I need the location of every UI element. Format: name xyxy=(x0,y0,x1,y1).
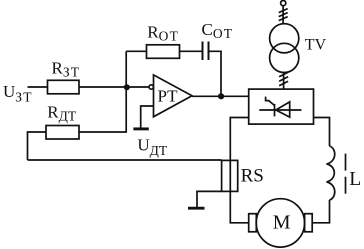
wire node A to op-amp inverting input xyxy=(126,86,149,88)
resistor Rдт xyxy=(46,126,79,140)
wire block right output down to smoothing reactor L xyxy=(314,118,330,147)
resistor Rзт xyxy=(48,80,80,94)
inductor L (coil) xyxy=(327,146,335,200)
wire block lower-left output down to RS xyxy=(230,118,248,161)
wire op-amp output to thyristor block through node B xyxy=(192,95,249,97)
wire RS ground tap xyxy=(197,191,222,207)
wire Rот to Cот xyxy=(180,50,203,52)
svg-text:UДТ: UДТ xyxy=(137,135,167,158)
svg-text:CОТ: CОТ xyxy=(202,20,234,41)
wire node A up to feedback branch xyxy=(125,51,127,87)
svg-text:РТ: РТ xyxy=(158,86,179,105)
wire Rдт left down to bottom feedback rail xyxy=(28,132,47,160)
thyristor converter block xyxy=(249,89,314,124)
thyristor symbol anode-cathode line xyxy=(259,109,301,111)
resistor Rот xyxy=(147,45,180,59)
wire node A down to Rдт xyxy=(79,87,126,132)
three-phase hatch marks (top) xyxy=(279,9,288,13)
wire op-amp noninverting input to common xyxy=(141,106,154,128)
wire RS to motor left brush xyxy=(230,191,248,222)
three-phase hatch marks (bottom) xyxy=(279,72,288,77)
wire feedback left segment xyxy=(126,50,146,52)
wire transformer to thyristor block (three-phase line) xyxy=(283,72,285,89)
op-amp РТ (current regulator) xyxy=(154,75,193,117)
svg-text:TV: TV xyxy=(305,37,327,54)
capacitor Cот xyxy=(202,42,204,61)
svg-text:RОТ: RОТ xyxy=(147,23,179,44)
wire Cот to node B (feedback right corner) xyxy=(209,51,222,96)
thyristor symbol gate xyxy=(266,97,275,106)
svg-text:UЗТ: UЗТ xyxy=(3,82,33,105)
transformer TV xyxy=(270,24,299,53)
ground (bar near RS) xyxy=(188,207,205,210)
svg-text:RS: RS xyxy=(241,166,264,187)
ground (op-amp common bar) xyxy=(133,127,148,130)
inductor core bars xyxy=(345,154,347,171)
shunt RS xyxy=(222,160,238,191)
node B (output junction dot) xyxy=(218,93,224,99)
wire terminal to transformer (three-phase line) xyxy=(282,6,284,24)
motor left brush xyxy=(249,214,257,232)
svg-text:RЗТ: RЗТ xyxy=(52,59,81,80)
svg-text:RДТ: RДТ xyxy=(47,102,77,123)
svg-text:M: M xyxy=(273,212,291,234)
terminal (supply input circle) xyxy=(281,1,286,6)
thyristor symbol triangle xyxy=(276,102,290,117)
node A (summing junction dot) xyxy=(124,84,130,90)
svg-text:L: L xyxy=(349,169,361,190)
wire L to motor right brush xyxy=(312,200,329,223)
wire through RS xyxy=(229,160,231,191)
wire bottom feedback rail to RS xyxy=(28,159,222,161)
thyristor symbol cathode bar xyxy=(274,104,276,117)
motor M body xyxy=(256,199,304,247)
wire Uзт lead xyxy=(28,86,48,88)
motor right brush xyxy=(305,214,313,232)
wire Rзт to node A xyxy=(79,86,126,88)
